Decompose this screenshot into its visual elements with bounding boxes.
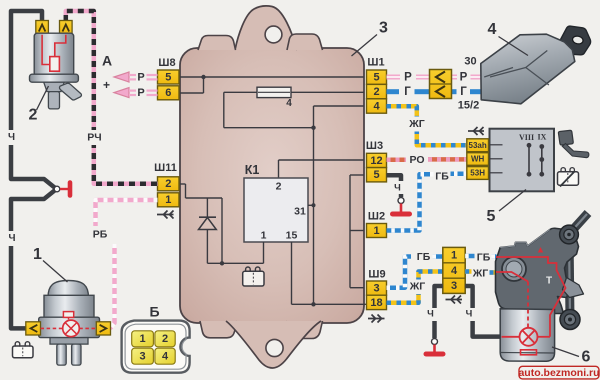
svg-text:ГБ: ГБ [477,251,491,263]
svg-text:ГБ: ГБ [417,251,431,263]
svg-text:Ч: Ч [8,132,15,143]
svg-text:Б: Б [149,304,159,320]
svg-text:3: 3 [451,280,457,292]
svg-text:1: 1 [261,229,267,241]
svg-text:6: 6 [582,349,591,366]
svg-text:4: 4 [373,100,380,112]
svg-text:К1: К1 [245,163,260,177]
svg-text:2: 2 [276,180,282,192]
svg-text:Г: Г [404,86,411,98]
svg-text:3: 3 [139,351,145,363]
svg-text:4: 4 [451,265,458,277]
svg-text:15: 15 [286,229,298,241]
svg-text:Ш1: Ш1 [367,56,384,68]
svg-text:auto.bezmoni.ru: auto.bezmoni.ru [518,367,599,379]
svg-text:Р: Р [137,87,144,99]
svg-text:IX: IX [538,132,547,141]
svg-text:Ш11: Ш11 [154,162,177,174]
svg-text:Ш9: Ш9 [368,268,385,280]
svg-text:ЖГ: ЖГ [408,118,424,130]
svg-text:3: 3 [373,283,379,295]
svg-text:ЖГ: ЖГ [409,280,425,292]
svg-text:31: 31 [294,205,306,217]
svg-text:VIII: VIII [519,133,534,142]
svg-text:1: 1 [165,194,171,206]
svg-text:12: 12 [370,155,382,167]
svg-text:Ш3: Ш3 [366,140,383,152]
svg-text:5: 5 [373,72,379,84]
svg-text:4: 4 [488,21,497,38]
svg-text:53ah: 53ah [469,141,487,150]
svg-text:1: 1 [373,225,379,237]
svg-text:Ч: Ч [427,309,434,320]
svg-text:2: 2 [165,178,171,190]
svg-text:1: 1 [139,333,145,345]
svg-text:Ч: Ч [8,233,15,244]
svg-text:ГБ: ГБ [435,170,449,182]
svg-text:53H: 53H [470,169,485,178]
svg-text:6: 6 [165,87,171,99]
svg-text:1: 1 [33,246,42,263]
svg-text:1: 1 [451,249,457,261]
svg-text:Р: Р [460,72,468,84]
svg-text:4: 4 [162,351,169,363]
svg-text:5: 5 [165,71,171,83]
svg-text:Р: Р [404,72,412,84]
svg-text:WH: WH [471,155,485,164]
svg-text:4: 4 [286,98,292,109]
svg-text:РО: РО [409,154,424,166]
svg-text:Ш2: Ш2 [368,210,385,222]
svg-text:ЖГ: ЖГ [472,267,488,279]
svg-text:2: 2 [373,86,379,98]
svg-text:Ш8: Ш8 [158,57,175,69]
svg-text:Р: Р [137,71,144,83]
svg-text:Ч: Ч [394,183,401,194]
svg-text:5: 5 [373,169,379,181]
svg-text:РЧ: РЧ [87,131,101,143]
svg-text:18: 18 [370,297,382,309]
svg-text:А: А [102,53,112,69]
svg-text:Ч: Ч [466,309,473,320]
svg-text:5: 5 [487,208,496,225]
svg-text:2: 2 [162,333,168,345]
svg-text:30: 30 [464,55,476,67]
svg-text:3: 3 [379,20,388,37]
svg-text:РБ: РБ [93,228,108,240]
svg-text:+: + [103,78,110,92]
svg-text:Т: Т [546,276,552,287]
svg-text:15/2: 15/2 [458,99,479,111]
svg-text:Г: Г [460,86,467,98]
